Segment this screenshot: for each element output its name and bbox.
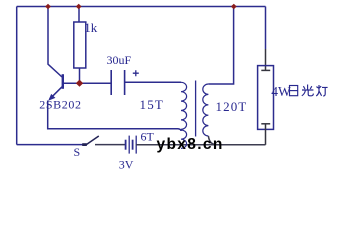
wire left edge	[16, 7, 18, 145]
wire secondary top lead	[208, 7, 233, 85]
label CJK ri (sun) of fluorescent lamp	[290, 86, 298, 96]
label CJK guang (light) of fluorescent lamp	[302, 85, 314, 96]
label 3V	[119, 157, 134, 171]
lamp filament top	[261, 69, 270, 71]
svg-text:4W: 4W	[271, 84, 291, 99]
svg-text:120T: 120T	[216, 99, 248, 114]
wire top bus	[17, 6, 266, 8]
svg-text:S: S	[74, 145, 81, 159]
svg-text:6T: 6T	[141, 130, 155, 144]
svg-text:3V: 3V	[119, 157, 134, 171]
label 1k	[84, 20, 98, 35]
node junction top secondary	[231, 4, 237, 9]
svg-text:1k: 1k	[84, 20, 98, 35]
transformer T1 feedback 6T winding	[181, 130, 187, 148]
wire collector branch	[48, 7, 62, 78]
battery B1 3V	[126, 136, 137, 154]
label 4W	[271, 84, 291, 99]
label S	[74, 145, 81, 159]
transformer T1 secondary 120T winding	[203, 84, 209, 136]
transformer T1 primary 15T winding	[181, 82, 187, 129]
label CJK deng (lamp) of fluorescent lamp	[316, 85, 327, 96]
transistor Q1 2SB202 base bar	[62, 74, 64, 89]
transistor Q1 emitter	[48, 87, 62, 101]
label 120T	[216, 99, 248, 114]
resistor R1 lead top	[78, 7, 80, 23]
lamp filament bottom	[261, 124, 270, 145]
wire bottom bus right segment	[136, 144, 265, 146]
resistor R1 1k	[74, 22, 86, 68]
node junction top collector	[45, 4, 51, 9]
wire bottom bus left segment	[17, 144, 84, 146]
svg-text:ybx8.cn: ybx8.cn	[157, 136, 224, 153]
wire base	[63, 82, 111, 84]
switch contact blob	[82, 143, 87, 146]
wire lamp top lead	[265, 7, 267, 71]
label 2SB202	[39, 98, 81, 112]
lamp tube 4W	[258, 66, 274, 130]
wire secondary bottom lead	[208, 136, 216, 145]
svg-text:30uF: 30uF	[107, 53, 132, 67]
wire capacitor to primary	[125, 81, 181, 83]
label 30uF	[107, 53, 132, 67]
capacitor C1 plate left	[110, 70, 112, 95]
label 6T	[141, 130, 155, 144]
wire emitter to feedback tap	[48, 101, 181, 132]
plus polarity mark	[133, 70, 139, 76]
transformer T1 core	[195, 81, 197, 137]
node junction base	[76, 80, 83, 87]
label 15T	[140, 97, 165, 112]
watermark ybx8.cn	[157, 136, 224, 153]
node junction top resistor	[76, 4, 82, 9]
svg-text:2SB202: 2SB202	[39, 98, 81, 112]
capacitor C1 plate right	[124, 70, 126, 95]
svg-text:15T: 15T	[140, 97, 165, 112]
resistor R1 lead bottom	[79, 68, 81, 83]
switch S	[85, 136, 125, 145]
